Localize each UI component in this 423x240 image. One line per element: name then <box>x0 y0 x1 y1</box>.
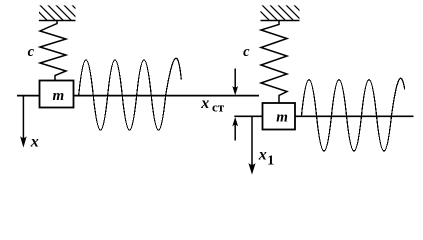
right support hatching <box>254 5 310 21</box>
svg-text:1: 1 <box>267 154 274 169</box>
dimension arrow up shaft <box>234 119 236 141</box>
x1 axis arrowhead <box>248 163 255 175</box>
left sine wave <box>79 58 182 130</box>
right support line <box>261 20 300 22</box>
left support line <box>39 20 76 22</box>
left mass box <box>40 81 74 108</box>
left support hatching <box>31 5 87 21</box>
right mass box <box>263 103 296 130</box>
left equilibrium line (left segment) <box>17 95 40 97</box>
left equilibrium line (right segment) <box>74 95 260 97</box>
x axis arrowhead <box>20 136 27 147</box>
svg-text:x: x <box>200 95 209 112</box>
right equilibrium line (left segment) <box>234 115 262 117</box>
svg-text:x: x <box>258 146 267 163</box>
svg-text:c: c <box>28 44 35 60</box>
svg-text:m: m <box>276 110 288 126</box>
dimension arrowhead down <box>232 86 238 95</box>
svg-text:x: x <box>30 134 39 151</box>
svg-text:ст: ст <box>212 100 225 115</box>
x axis arrow shaft <box>22 96 24 141</box>
right spring c <box>261 21 287 104</box>
svg-text:m: m <box>53 88 65 104</box>
right equilibrium line (right segment) <box>295 115 414 117</box>
left spring c <box>40 21 66 81</box>
x1 axis arrow shaft <box>251 116 253 168</box>
dimension arrowhead up <box>232 117 238 126</box>
dimension arrow down shaft <box>234 69 236 93</box>
svg-text:c: c <box>243 44 250 60</box>
right sine wave <box>302 78 405 151</box>
